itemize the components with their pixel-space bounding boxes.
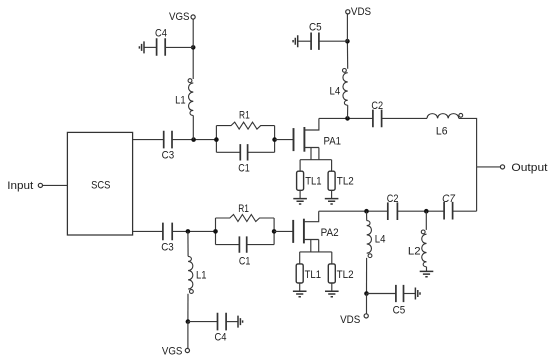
svg-text:L4: L4 <box>330 85 341 97</box>
Input terminal <box>7 180 42 192</box>
svg-text:Output: Output <box>511 162 547 174</box>
ground (below TL1 bottom) <box>293 291 307 296</box>
ground (below TL2 bottom) <box>325 291 339 296</box>
wire L6 to output bus <box>459 118 477 166</box>
wire SCS to C3 (bottom) <box>133 230 163 232</box>
node right of R1/C1 (top) <box>272 137 277 142</box>
svg-text:PA1: PA1 <box>324 135 342 147</box>
wire TL2b to ground <box>331 283 333 291</box>
svg-text:C4: C4 <box>215 331 227 343</box>
RC network right vertical (bottom) <box>273 218 275 245</box>
inductor L4 (bottom) <box>367 221 386 258</box>
transmission line TL1 (top) <box>297 171 322 190</box>
wire to PA1 gate <box>275 139 294 141</box>
svg-text:TL1: TL1 <box>305 176 321 188</box>
capacitor C4 (bottom) <box>215 313 227 344</box>
wire C2b to L4 node <box>319 210 388 212</box>
capacitor C1 (top) <box>216 144 274 174</box>
svg-text:TL2: TL2 <box>337 269 354 281</box>
inductor L2 <box>408 211 427 267</box>
junction C4/VGS (bottom) <box>186 319 191 324</box>
wire node VGS-C4 to L1 <box>192 47 194 79</box>
node L4 (bottom) <box>364 209 369 214</box>
ground (below L2) <box>420 271 434 276</box>
Output terminal <box>500 162 547 174</box>
wire L2 to ground <box>426 267 428 272</box>
svg-text:C1: C1 <box>238 162 250 174</box>
wire junction to C4b <box>188 321 218 323</box>
node A junction <box>191 137 196 142</box>
inductor L1 (top) <box>175 79 193 116</box>
wire ground to C4 <box>144 46 157 48</box>
node drain/L4 (top) <box>345 116 350 121</box>
wire ground to C5 <box>298 40 311 42</box>
node right of R1/C1 (bottom) <box>272 229 277 234</box>
capacitor C1 (bottom) <box>216 236 275 267</box>
wire junction to VGS terminal <box>192 19 194 47</box>
svg-text:L6: L6 <box>436 125 448 137</box>
wire L4b to VDS junction <box>366 258 368 294</box>
wire bus to Output terminal <box>477 166 501 168</box>
wire C4 to junction <box>165 46 193 48</box>
ground (right of C4 bottom) <box>238 316 243 328</box>
VGS terminal (top) <box>169 11 195 23</box>
transmission line TL1 (bottom) <box>296 264 321 283</box>
wire C2 to L6 <box>382 117 427 119</box>
transistor PA2 <box>293 211 338 264</box>
output bus vertical <box>476 167 478 211</box>
node left of R1/C1 (bottom) <box>213 229 218 234</box>
capacitor C2 (bottom) <box>387 193 399 220</box>
resistor R1 (top) <box>216 110 274 130</box>
transistor PA1 <box>294 118 342 171</box>
svg-text:VDS: VDS <box>340 314 360 326</box>
svg-text:C2: C2 <box>371 100 383 112</box>
wire TL2 to ground <box>331 190 333 198</box>
junction C5/VDS (bottom) <box>364 291 369 296</box>
ground (left of C5 top) <box>293 35 298 47</box>
wire bus corner to C7 <box>453 210 477 212</box>
wire L1b to VGS junction <box>187 294 189 322</box>
SCS block U1 <box>67 132 132 235</box>
RC network left vertical (top) <box>215 126 217 153</box>
svg-text:L4: L4 <box>375 233 386 245</box>
svg-text:L1: L1 <box>175 95 186 107</box>
ground (left of C4 top) <box>139 41 144 53</box>
svg-text:C5: C5 <box>393 305 406 317</box>
node left of R1/C1 (top) <box>214 137 219 142</box>
wire junction to VDS terminal <box>346 14 348 41</box>
inductor L4 (top) <box>330 69 348 106</box>
transmission line TL2 (top) <box>328 171 354 190</box>
svg-text:PA2: PA2 <box>321 227 339 239</box>
wire VDS junction to L4 <box>346 41 348 68</box>
inductor L6 <box>427 113 463 137</box>
wire node B to L1b <box>187 231 189 256</box>
svg-text:R1: R1 <box>238 203 249 215</box>
ground (below TL1 top) <box>293 199 307 204</box>
wire C4b to ground <box>226 321 238 323</box>
wire L4 to rail <box>347 105 349 118</box>
svg-text:VGS: VGS <box>162 346 183 358</box>
transmission line TL2 (bottom) <box>328 264 353 283</box>
svg-text:VGS: VGS <box>169 11 190 23</box>
resistor R1 (bottom) <box>216 203 275 222</box>
wire C3b to node B <box>172 230 215 232</box>
wire to PA2 gate <box>274 230 293 232</box>
wire C3 to node A <box>172 139 216 141</box>
capacitor C5 (bottom) <box>393 285 406 317</box>
svg-text:L2: L2 <box>408 246 421 258</box>
RC network left vertical (bottom) <box>215 218 217 245</box>
svg-text:L1: L1 <box>196 270 207 282</box>
wire junction to C5b <box>367 293 396 295</box>
junction C5/VDS (top) <box>345 39 350 44</box>
capacitor C3 (top) <box>162 131 175 162</box>
RC network right vertical (top) <box>274 126 276 153</box>
inductor L1 (bottom) <box>188 256 206 293</box>
svg-text:SCS: SCS <box>91 179 110 191</box>
wire TL1 to ground <box>299 190 301 198</box>
svg-text:C1: C1 <box>239 256 251 268</box>
wire PA1 drain to C2 (top rail) <box>319 117 373 119</box>
junction C4/VGS <box>191 45 196 50</box>
wire C5b to ground <box>404 293 416 295</box>
node L2 <box>424 209 429 214</box>
svg-text:VDS: VDS <box>351 6 371 18</box>
svg-text:Input: Input <box>7 180 33 192</box>
capacitor C4 (top) <box>155 27 167 56</box>
wire C7 to L2 node <box>397 210 444 212</box>
svg-text:C7: C7 <box>442 193 456 205</box>
wire rail to L4b <box>366 211 368 220</box>
VGS terminal (bottom) <box>162 346 190 358</box>
svg-text:TL1: TL1 <box>305 269 321 281</box>
wire C5 to junction <box>319 40 348 42</box>
node B junction <box>186 229 191 234</box>
svg-text:R1: R1 <box>239 110 250 122</box>
wire Input to SCS <box>43 184 68 186</box>
wire TL1b to ground <box>299 283 301 291</box>
VDS terminal (bottom) <box>340 314 368 326</box>
svg-text:C5: C5 <box>309 22 322 34</box>
svg-text:TL2: TL2 <box>337 176 354 188</box>
capacitor C3 (bottom) <box>161 223 174 254</box>
capacitor C2 (top) <box>371 100 383 127</box>
wire SCS to C3 (top) <box>133 139 164 141</box>
wire junction to VDS terminal (bottom) <box>366 294 368 314</box>
svg-text:C4: C4 <box>155 27 167 39</box>
capacitor C5 (top) <box>309 22 322 50</box>
ground (below TL2 top) <box>325 199 339 204</box>
wire junction to VGS terminal (bottom) <box>187 322 189 349</box>
svg-text:C3: C3 <box>162 150 175 162</box>
capacitor C7 <box>442 193 456 220</box>
svg-text:C2: C2 <box>387 193 399 205</box>
svg-text:C3: C3 <box>161 242 174 254</box>
VDS terminal (top) <box>346 6 371 18</box>
ground (right of C5 bottom) <box>415 288 420 300</box>
wire L1 to node A <box>192 116 194 140</box>
